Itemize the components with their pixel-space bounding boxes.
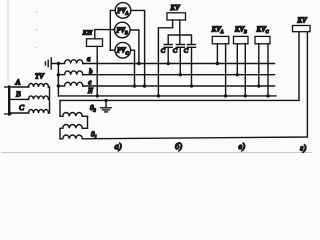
svg-text:N: N xyxy=(87,87,93,95)
transformer TV auxiliary winding 1 xyxy=(60,100,88,116)
transformer TV auxiliary winding 2 xyxy=(60,116,88,139)
wire KV-B left pin to line b xyxy=(236,44,238,75)
busbar xyxy=(5,87,11,115)
node KV-C on c xyxy=(257,84,260,87)
wire line N xyxy=(58,95,276,97)
wire C2 to line b xyxy=(179,47,181,74)
node C1 on a xyxy=(167,62,170,65)
node KV-C on N xyxy=(266,94,269,97)
wire C1 to line a xyxy=(167,47,169,63)
svg-text:01: 01 xyxy=(91,131,97,140)
node PV-B on a xyxy=(137,62,140,65)
wire: faint page artifact lines xyxy=(2,0,312,153)
relay KV (scheme g) xyxy=(293,26,311,32)
wire line a xyxy=(83,63,275,65)
node C2 on b xyxy=(179,73,182,76)
voltmeter PV-C xyxy=(115,42,131,58)
node PV-C on c xyxy=(133,84,136,87)
wire KV-A right pin to line N xyxy=(225,44,227,96)
svg-text:B: B xyxy=(16,90,21,99)
wire A tap xyxy=(12,86,29,88)
transformer TV secondary winding a xyxy=(58,60,82,64)
svg-text:C: C xyxy=(19,103,25,112)
transformer TV primary winding A xyxy=(29,84,49,88)
node coil c tap xyxy=(57,84,60,87)
wire C tap xyxy=(9,112,29,114)
svg-text:TV: TV xyxy=(35,71,45,80)
node KV-B on N xyxy=(244,94,247,97)
node coil b tap xyxy=(57,73,60,76)
relay KH xyxy=(87,39,103,47)
wire line b xyxy=(83,74,275,76)
svg-text:б): б) xyxy=(175,141,182,151)
svg-text:02: 02 xyxy=(90,104,97,113)
wire KH top to PV-B xyxy=(95,30,115,39)
svg-text:г): г) xyxy=(300,143,306,153)
wire KH bottom to line N xyxy=(96,46,98,96)
svg-text:KVA: KVA xyxy=(211,26,224,34)
ground (secondary neutral) xyxy=(45,58,58,69)
capacitor C2 xyxy=(176,45,184,48)
wire B tap xyxy=(9,98,29,100)
node PV-A on c xyxy=(143,84,146,87)
svg-text:KV: KV xyxy=(170,4,181,12)
node KV-b on N xyxy=(157,94,160,97)
wire KV-B right pin to line N xyxy=(244,44,246,96)
voltmeter PV-A xyxy=(115,3,131,19)
wire KV-A left pin to line a xyxy=(216,44,218,64)
svg-text:KVB: KVB xyxy=(234,25,247,34)
wire secondary star vertical xyxy=(57,64,59,96)
svg-text:KV: KV xyxy=(297,17,308,25)
node KV-A on N xyxy=(224,94,227,97)
wire PV-C right lead to line c xyxy=(131,50,135,86)
node KV-B on b xyxy=(236,73,239,76)
node ground tap on 0-2 xyxy=(104,99,107,102)
wire KV right pin to capacitor rail xyxy=(179,20,181,44)
wire PV-A left lead xyxy=(110,10,115,50)
wire: faint scan specks xyxy=(36,11,38,48)
svg-text:а): а) xyxy=(115,141,122,151)
svg-text:C: C xyxy=(161,48,166,55)
node KV-A on a xyxy=(216,62,219,65)
transformer TV secondary winding b xyxy=(58,71,82,75)
ground (on 0-2 line) xyxy=(101,100,111,112)
capacitor C1 xyxy=(164,45,172,48)
wire KV-C left pin to line c xyxy=(258,44,260,86)
node KH on N xyxy=(96,94,99,97)
transformer TV primary winding B xyxy=(29,96,49,99)
capacitor C3 xyxy=(188,45,196,48)
node secondary star xyxy=(57,62,60,65)
wire PV-C left lead xyxy=(110,49,115,51)
wire line 0-1 xyxy=(82,32,307,139)
voltmeter PV-B xyxy=(115,22,131,38)
svg-text:C: C xyxy=(184,48,189,55)
wire KV-C right pin to line N xyxy=(267,44,269,96)
svg-text:a: a xyxy=(87,55,91,63)
wire KV left pin to line N xyxy=(158,20,172,96)
wire line c xyxy=(83,85,275,87)
wire PV-B right lead to line a xyxy=(130,30,139,64)
wire capacitor rail xyxy=(168,35,191,44)
relay KV-C xyxy=(255,36,270,43)
wire C3 to line c xyxy=(191,47,193,86)
svg-text:b: b xyxy=(89,67,93,75)
wire PV-A right lead to line c xyxy=(131,10,145,86)
svg-text:A: A xyxy=(15,77,21,86)
transformer TV auxiliary winding 3 xyxy=(60,135,82,139)
relay KV-A xyxy=(212,36,229,43)
svg-text:в): в) xyxy=(239,141,246,151)
wire primary star point xyxy=(49,87,50,113)
node C3 on c xyxy=(190,84,193,87)
svg-text:KVC: KVC xyxy=(256,26,270,34)
transformer TV secondary winding c xyxy=(58,82,82,86)
relay KV (scheme b) xyxy=(167,13,186,20)
svg-text:КН: КН xyxy=(82,30,93,37)
relay KV-B xyxy=(234,36,249,43)
transformer TV primary winding C xyxy=(29,110,49,113)
wire line 0-2 xyxy=(61,32,300,101)
svg-text:C: C xyxy=(173,48,178,55)
